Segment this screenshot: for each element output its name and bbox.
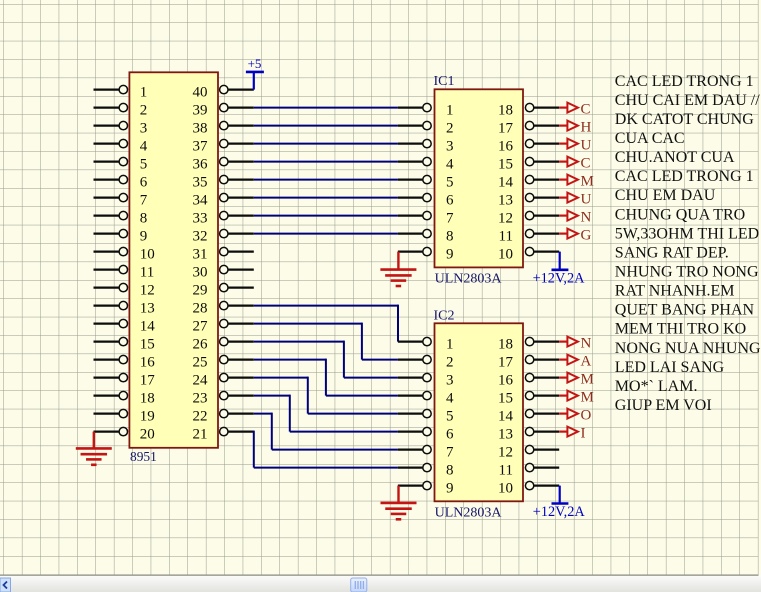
- wire 8951 pin 35 to IC1 pin 5: [254, 179, 398, 181]
- svg-text:8: 8: [446, 463, 454, 479]
- svg-text:+12V,2A: +12V,2A: [533, 270, 586, 286]
- IC2 pin 12: [498, 445, 559, 461]
- svg-text:N: N: [581, 210, 592, 226]
- svg-text:11: 11: [140, 265, 154, 281]
- svg-text:38: 38: [193, 121, 208, 137]
- svg-text:CAC LED TRONG 1: CAC LED TRONG 1: [615, 168, 754, 185]
- svg-text:SANG RAT DEP.: SANG RAT DEP.: [615, 244, 729, 261]
- svg-text:4: 4: [140, 139, 148, 155]
- svg-text:5: 5: [140, 157, 148, 173]
- svg-text:6: 6: [446, 193, 454, 209]
- svg-text:28: 28: [193, 301, 208, 317]
- svg-text:23: 23: [193, 391, 208, 407]
- ground GND2 (IC1 pin 9): [380, 252, 416, 286]
- svg-text:5: 5: [446, 175, 454, 191]
- svg-text:CHU CAI EM DAU //: CHU CAI EM DAU //: [615, 92, 760, 109]
- svg-text:12: 12: [140, 283, 155, 299]
- output arrow IC1 pin 16 letter U: [559, 138, 591, 154]
- 8951 pin 34: [193, 193, 254, 209]
- svg-text:+12V,2A: +12V,2A: [533, 504, 586, 520]
- wire 8951 pin 24 to IC2 pin 5: [254, 377, 398, 414]
- power +12V,2A (IC2 pin 10): [552, 486, 569, 504]
- 8951 pin 14: [94, 319, 156, 335]
- svg-text:9: 9: [140, 229, 148, 245]
- IC2 pin 13: [498, 427, 559, 443]
- output arrow IC2 pin 16 letter M: [559, 372, 594, 388]
- svg-text:G: G: [581, 228, 592, 244]
- svg-text:33: 33: [193, 211, 208, 227]
- svg-text:CHU EM DAU: CHU EM DAU: [615, 187, 716, 204]
- svg-text:M: M: [581, 372, 594, 388]
- svg-text:MO*` LAM.: MO*` LAM.: [615, 378, 698, 395]
- output arrow IC1 pin 17 letter H: [559, 120, 591, 136]
- svg-text:11: 11: [499, 463, 513, 479]
- 8951 pin 10: [94, 247, 155, 263]
- 8951 pin 26: [193, 337, 254, 353]
- svg-text:22: 22: [193, 409, 208, 425]
- svg-text:MEM THI TRO KO: MEM THI TRO KO: [615, 321, 746, 338]
- svg-text:8: 8: [140, 211, 148, 227]
- svg-text:26: 26: [193, 337, 209, 353]
- svg-text:5: 5: [446, 409, 454, 425]
- 8951 pin 2: [94, 103, 148, 119]
- IC1 pin 1: [398, 103, 454, 119]
- svg-text:7: 7: [446, 211, 454, 227]
- svg-text:3: 3: [446, 139, 454, 155]
- 8951 pin 11: [94, 265, 155, 281]
- svg-text:13: 13: [140, 301, 155, 317]
- IC1 pin 8: [398, 229, 454, 245]
- output arrow IC1 pin 11 letter G: [559, 228, 591, 244]
- 8951 pin 5: [94, 157, 148, 173]
- svg-text:NONG NUA NHUNG: NONG NUA NHUNG: [615, 340, 761, 357]
- svg-text:17: 17: [498, 355, 514, 371]
- svg-text:34: 34: [193, 193, 209, 209]
- svg-text:16: 16: [498, 373, 514, 389]
- wire 8951 pin 36 to IC1 pin 4: [254, 161, 398, 163]
- label +12V,2A (IC1): [533, 270, 586, 286]
- 8951 pin 23: [193, 391, 254, 407]
- output arrow IC2 pin 13 letter I: [559, 426, 585, 442]
- 8951 pin 38: [193, 121, 254, 137]
- power +5 symbol: [246, 72, 264, 90]
- 8951 pin 25: [193, 355, 254, 371]
- 8951 pin 18: [94, 391, 155, 407]
- svg-text:1: 1: [446, 337, 454, 353]
- svg-text:M: M: [581, 174, 594, 190]
- IC2 pin 11: [499, 463, 560, 479]
- svg-text:9: 9: [446, 481, 454, 497]
- IC2 pin 4: [398, 391, 454, 407]
- svg-text:24: 24: [193, 373, 209, 389]
- IC1 pin 7: [398, 211, 454, 227]
- 8951 pin 17: [94, 373, 156, 389]
- svg-text:N: N: [581, 336, 592, 352]
- svg-text:3: 3: [446, 373, 454, 389]
- 8951 pin 31: [193, 247, 254, 263]
- label 8951: [130, 449, 157, 464]
- svg-text:27: 27: [193, 319, 209, 335]
- svg-text:12: 12: [498, 445, 513, 461]
- wire 8951 pin 22 to IC2 pin 7: [254, 413, 398, 450]
- IC IC1 ULN2803A body: [435, 89, 524, 267]
- svg-text:8: 8: [446, 229, 454, 245]
- svg-text:15: 15: [498, 391, 513, 407]
- 8951 pin 28: [193, 301, 254, 317]
- wire 8951 pin 28 to IC2 pin 1: [254, 305, 398, 342]
- 8951 pin 27: [193, 319, 254, 335]
- IC1 pin 9: [398, 247, 454, 263]
- IC1 pin 3: [398, 139, 454, 155]
- 8951 pin 4: [94, 139, 148, 155]
- output arrow IC1 pin 15 letter C: [559, 156, 590, 172]
- IC2 pin 9: [398, 481, 454, 497]
- 8951 pin 22: [193, 409, 254, 425]
- svg-text:M: M: [581, 390, 594, 406]
- IC2 pin 14: [498, 409, 559, 425]
- IC1 pin 12: [498, 211, 559, 227]
- IC1 pin 15: [498, 157, 559, 173]
- IC2 pin 10: [498, 481, 559, 497]
- 8951 pin 9: [94, 229, 148, 245]
- svg-text:20: 20: [140, 427, 155, 443]
- svg-text:18: 18: [140, 391, 155, 407]
- svg-text:11: 11: [499, 229, 513, 245]
- svg-text:LED LAI SANG: LED LAI SANG: [615, 359, 725, 376]
- svg-text:C: C: [581, 156, 591, 172]
- output arrow IC1 pin 13 letter U: [559, 192, 591, 208]
- svg-text:NHUNG TRO NONG: NHUNG TRO NONG: [615, 264, 759, 281]
- svg-text:14: 14: [498, 409, 514, 425]
- svg-text:25: 25: [193, 355, 208, 371]
- svg-text:U: U: [581, 138, 592, 154]
- IC U1 8951 body: [129, 72, 218, 448]
- svg-text:16: 16: [140, 355, 156, 371]
- output arrow IC1 pin 18 letter C: [559, 102, 590, 118]
- svg-text:14: 14: [498, 175, 514, 191]
- IC2 pin 3: [398, 373, 454, 389]
- svg-text:29: 29: [193, 283, 208, 299]
- 8951 pin 40: [193, 85, 254, 101]
- svg-text:13: 13: [498, 427, 513, 443]
- IC2 pin 8: [398, 463, 454, 479]
- 8951 pin 6: [94, 175, 148, 191]
- svg-text:IC1: IC1: [434, 74, 455, 89]
- power +12V,2A (IC1 pin 10): [552, 252, 569, 270]
- label +5: [248, 56, 262, 71]
- IC IC2 ULN2803A body: [435, 323, 524, 501]
- output arrow IC2 pin 17 letter A: [559, 354, 591, 370]
- svg-text:14: 14: [140, 319, 156, 335]
- svg-text:+5: +5: [248, 56, 262, 71]
- svg-text:2: 2: [140, 103, 148, 119]
- svg-text:36: 36: [193, 157, 209, 173]
- svg-text:O: O: [581, 408, 592, 424]
- svg-text:4: 4: [446, 391, 454, 407]
- label +12V,2A (IC2): [533, 504, 586, 520]
- svg-text:10: 10: [140, 247, 155, 263]
- svg-text:30: 30: [193, 265, 208, 281]
- wire 8951 pin 21 to IC2 pin 8: [254, 431, 398, 468]
- 8951 pin 12: [94, 283, 155, 299]
- IC2 pin 5: [398, 409, 454, 425]
- svg-text:4: 4: [446, 157, 454, 173]
- svg-text:31: 31: [193, 247, 208, 263]
- svg-text:16: 16: [498, 139, 514, 155]
- svg-text:ULN2803A: ULN2803A: [435, 505, 503, 520]
- 8951 pin 21: [193, 427, 254, 443]
- svg-text:10: 10: [498, 247, 513, 263]
- svg-text:H: H: [581, 120, 592, 136]
- horizontal scrollbar track: [0, 575, 761, 592]
- 8951 pin 15: [94, 337, 155, 353]
- svg-text:13: 13: [498, 193, 513, 209]
- wire 8951 pin 27 to IC2 pin 2: [254, 323, 398, 360]
- 8951 pin 13: [94, 301, 155, 317]
- svg-text:6: 6: [140, 175, 148, 191]
- svg-text:CHU.ANOT CUA: CHU.ANOT CUA: [615, 149, 735, 166]
- 8951 pin 20: [94, 427, 155, 443]
- label ULN2803A (IC1): [435, 272, 503, 287]
- 8951 pin 37: [193, 139, 254, 155]
- IC2 pin 2: [398, 355, 454, 371]
- svg-text:19: 19: [140, 409, 155, 425]
- svg-text:I: I: [581, 426, 586, 442]
- svg-text:CHUNG QUA TRO: CHUNG QUA TRO: [615, 206, 745, 223]
- svg-text:32: 32: [193, 229, 208, 245]
- svg-text:18: 18: [498, 103, 513, 119]
- output arrow IC2 pin 14 letter O: [559, 408, 591, 424]
- IC2 pin 7: [398, 445, 454, 461]
- svg-text:37: 37: [193, 139, 209, 155]
- 8951 pin 33: [193, 211, 254, 227]
- svg-text:1: 1: [446, 103, 454, 119]
- wire 8951 pin 25 to IC2 pin 4: [254, 359, 398, 396]
- IC2 pin 16: [498, 373, 559, 389]
- svg-text:C: C: [581, 102, 591, 118]
- svg-text:2: 2: [446, 355, 454, 371]
- ground GND1 (8951 pin 20): [76, 432, 112, 465]
- wire 8951 pin 37 to IC1 pin 3: [254, 143, 398, 145]
- svg-text:9: 9: [446, 247, 454, 263]
- svg-text:6: 6: [446, 427, 454, 443]
- wire 8951 pin 38 to IC1 pin 2: [254, 125, 398, 127]
- IC1 pin 18: [498, 103, 559, 119]
- svg-text:17: 17: [498, 121, 514, 137]
- svg-text:QUET BANG PHAN: QUET BANG PHAN: [615, 302, 755, 319]
- svg-text:DK CATOT CHUNG: DK CATOT CHUNG: [615, 111, 754, 128]
- output arrow IC2 pin 15 letter M: [559, 390, 594, 406]
- svg-text:35: 35: [193, 175, 208, 191]
- svg-text:CUA CAC: CUA CAC: [615, 130, 685, 147]
- svg-text:17: 17: [140, 373, 156, 389]
- IC1 pin 16: [498, 139, 559, 155]
- svg-text:18: 18: [498, 337, 513, 353]
- svg-text:8951: 8951: [130, 449, 157, 464]
- IC1 pin 4: [398, 157, 454, 173]
- svg-text:7: 7: [446, 445, 454, 461]
- 8951 pin 24: [193, 373, 254, 389]
- scrollbar thumb: [351, 578, 367, 592]
- scrollbar left arrow button: [0, 578, 11, 592]
- label IC2: [434, 308, 455, 323]
- svg-text:1: 1: [140, 85, 148, 101]
- wire 8951 pin 23 to IC2 pin 6: [254, 395, 398, 432]
- 8951 pin 30: [193, 265, 254, 281]
- IC1 pin 13: [498, 193, 559, 209]
- 8951 pin 29: [193, 283, 254, 299]
- label IC1: [434, 74, 455, 89]
- svg-text:39: 39: [193, 103, 208, 119]
- IC2 pin 18: [498, 337, 559, 353]
- 8951 pin 36: [193, 157, 254, 173]
- 8951 pin 35: [193, 175, 254, 191]
- svg-text:5W,33OHM THI LED: 5W,33OHM THI LED: [615, 225, 759, 242]
- 8951 pin 7: [94, 193, 148, 209]
- 8951 pin 16: [94, 355, 156, 371]
- 8951 pin 19: [94, 409, 155, 425]
- wire 8951 pin 39 to IC1 pin 1: [254, 107, 398, 109]
- svg-text:ULN2803A: ULN2803A: [435, 272, 503, 287]
- svg-text:40: 40: [193, 85, 208, 101]
- svg-text:15: 15: [498, 157, 513, 173]
- ground GND3 (IC2 pin 9): [381, 486, 417, 520]
- IC2 pin 15: [498, 391, 559, 407]
- svg-text:21: 21: [193, 427, 208, 443]
- IC1 pin 14: [498, 175, 559, 191]
- svg-text:7: 7: [140, 193, 148, 209]
- 8951 pin 1: [94, 85, 148, 101]
- IC1 pin 17: [498, 121, 559, 137]
- svg-text:15: 15: [140, 337, 155, 353]
- wire 8951 pin 26 to IC2 pin 3: [254, 341, 398, 378]
- wire 8951 pin 32 to IC1 pin 8: [254, 233, 398, 235]
- 8951 pin 8: [94, 211, 148, 227]
- output arrow IC2 pin 18 letter N: [559, 336, 591, 352]
- svg-text:3: 3: [140, 121, 148, 137]
- output arrow IC1 pin 14 letter M: [559, 174, 594, 190]
- IC2 pin 1: [398, 337, 454, 353]
- IC2 pin 17: [498, 355, 559, 371]
- IC1 pin 5: [398, 175, 454, 191]
- 8951 pin 3: [94, 121, 148, 137]
- wire 8951 pin 34 to IC1 pin 6: [254, 197, 398, 199]
- svg-text:2: 2: [446, 121, 454, 137]
- svg-text:GIUP EM VOI: GIUP EM VOI: [615, 397, 712, 414]
- svg-text:IC2: IC2: [434, 308, 455, 323]
- IC1 pin 11: [499, 229, 560, 245]
- svg-text:U: U: [581, 192, 592, 208]
- label ULN2803A (IC2): [435, 505, 503, 520]
- svg-text:12: 12: [498, 211, 513, 227]
- 8951 pin 32: [193, 229, 254, 245]
- svg-text:RAT NHANH.EM: RAT NHANH.EM: [615, 283, 735, 300]
- IC1 pin 10: [498, 247, 559, 263]
- svg-text:10: 10: [498, 481, 513, 497]
- wire 8951 pin 33 to IC1 pin 7: [254, 215, 398, 217]
- IC1 pin 6: [398, 193, 454, 209]
- svg-text:CAC LED TRONG 1: CAC LED TRONG 1: [615, 73, 754, 90]
- svg-text:A: A: [581, 354, 592, 370]
- IC1 pin 2: [398, 121, 454, 137]
- text note block: [615, 73, 761, 414]
- 8951 pin 39: [193, 103, 254, 119]
- IC2 pin 6: [398, 427, 454, 443]
- output arrow IC1 pin 12 letter N: [559, 210, 591, 226]
